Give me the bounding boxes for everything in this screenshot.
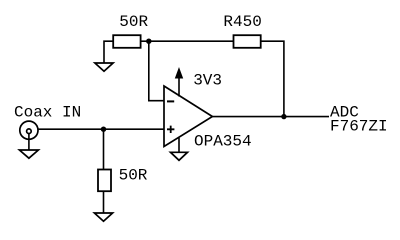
svg-text:50R: 50R [119,13,148,31]
resistor R2 50R (vertical) [98,170,111,192]
wire node B to R3 [149,40,234,42]
wire coax to op-amp + input [38,128,164,130]
wire R1 right to node B [141,40,149,42]
ground below R2 [94,213,112,221]
output junction dot [281,114,286,119]
op-amp U1 triangle [164,86,212,147]
svg-text:F767ZI: F767ZI [330,117,388,135]
wire R3 right then down to output [261,41,284,116]
svg-text:OPA354: OPA354 [194,133,252,151]
node B junction dot [146,39,151,44]
svg-text:Coax IN: Coax IN [14,103,81,121]
op-amp minus sign [167,100,174,102]
op-amp ground stub [178,138,180,153]
resistor R1 50R (horizontal) [113,35,140,48]
wire left of R1 to ground [104,41,113,63]
svg-text:R450: R450 [223,13,261,31]
output wire to ADC [212,116,329,118]
svg-text:3V3: 3V3 [193,72,222,90]
op-amp plus sign [167,126,174,133]
node A junction dot [101,127,106,132]
ground coax [19,150,38,158]
wire coax to ground stub [28,134,30,151]
ground below R1 left [95,63,113,71]
power arrow stem 3V3 [178,76,180,97]
svg-text:50R: 50R [119,167,148,185]
connector J1 coax outer [20,121,38,139]
ground below op-amp [171,152,188,160]
wire R2 to ground [103,191,105,213]
wire node A down to R2 [103,129,105,169]
resistor R3 R450 (horizontal) [234,35,261,48]
power arrow head [176,69,183,79]
connector J1 coax center pin [27,129,32,134]
wire node B down to op-amp - input [149,41,164,100]
